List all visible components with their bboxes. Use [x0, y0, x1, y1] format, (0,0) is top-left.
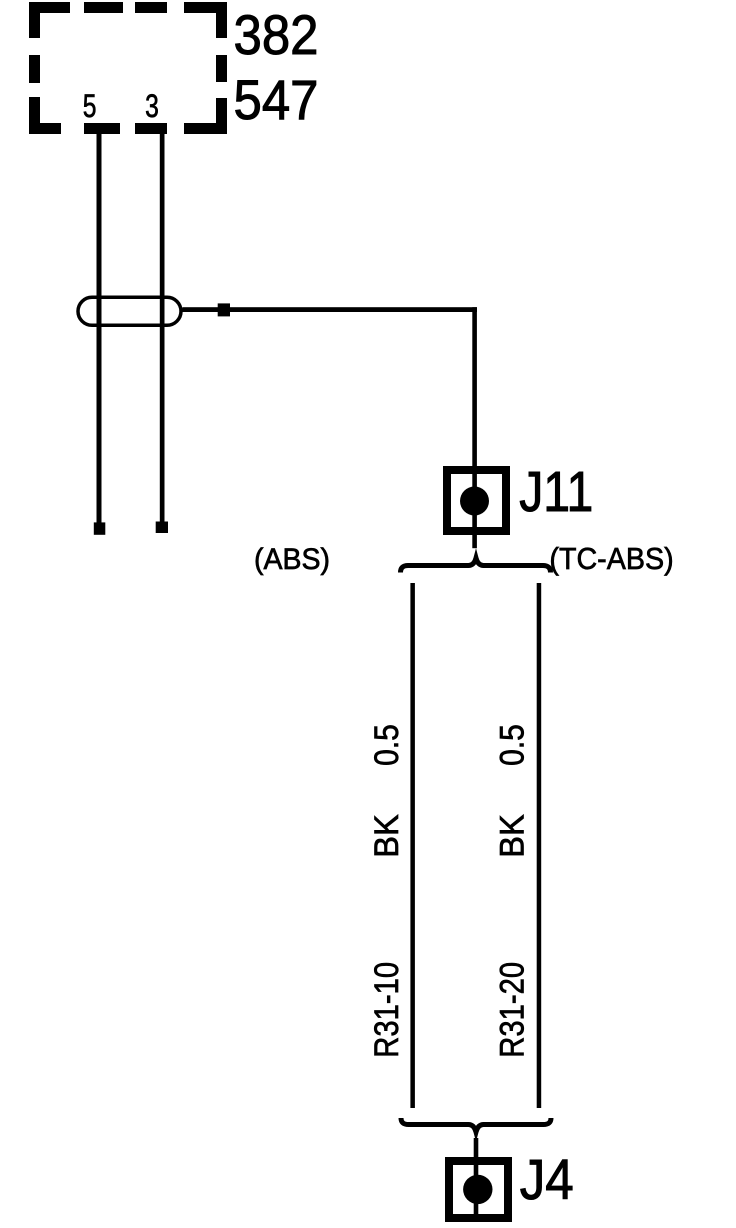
- svg-text:0.5: 0.5: [493, 724, 531, 766]
- splice J4 (box with dot): [449, 1161, 508, 1218]
- svg-text:R31-10: R31-10: [367, 962, 406, 1058]
- svg-text:BK: BK: [368, 814, 406, 858]
- wire end terminal (pin 3): [156, 522, 168, 534]
- junction square on horizontal wire: [218, 303, 230, 316]
- vertical wire from corner to splice J11 and through to brace: [472, 307, 477, 548]
- wire end terminal (pin 5): [94, 522, 106, 534]
- svg-text:BK: BK: [494, 814, 532, 858]
- svg-text:R31-20: R31-20: [492, 962, 531, 1058]
- grommet / pass-through oval: [78, 297, 181, 325]
- wire from pin 5: [97, 134, 102, 524]
- svg-text:0.5: 0.5: [367, 724, 405, 766]
- connector box 382/547 (dashed outline): [29, 2, 227, 134]
- svg-text:J11: J11: [519, 460, 593, 524]
- top brace: [401, 558, 551, 573]
- svg-text:(ABS): (ABS): [254, 543, 330, 576]
- wire from bottom brace to splice J4: [474, 1138, 479, 1222]
- bottom brace: [401, 1118, 551, 1132]
- svg-text:3: 3: [145, 89, 159, 125]
- svg-text:5: 5: [83, 89, 97, 125]
- splice J11 (box with dot): [447, 470, 506, 531]
- svg-text:382: 382: [234, 5, 319, 67]
- svg-text:(TC-ABS): (TC-ABS): [549, 542, 673, 576]
- horizontal wire from oval to corner: [183, 307, 478, 312]
- wire R31-10 (left): [410, 583, 415, 1108]
- svg-text:J4: J4: [520, 1148, 574, 1211]
- svg-text:547: 547: [234, 70, 319, 132]
- wire from pin 3: [160, 134, 165, 522]
- wire R31-20 (right): [537, 583, 542, 1108]
